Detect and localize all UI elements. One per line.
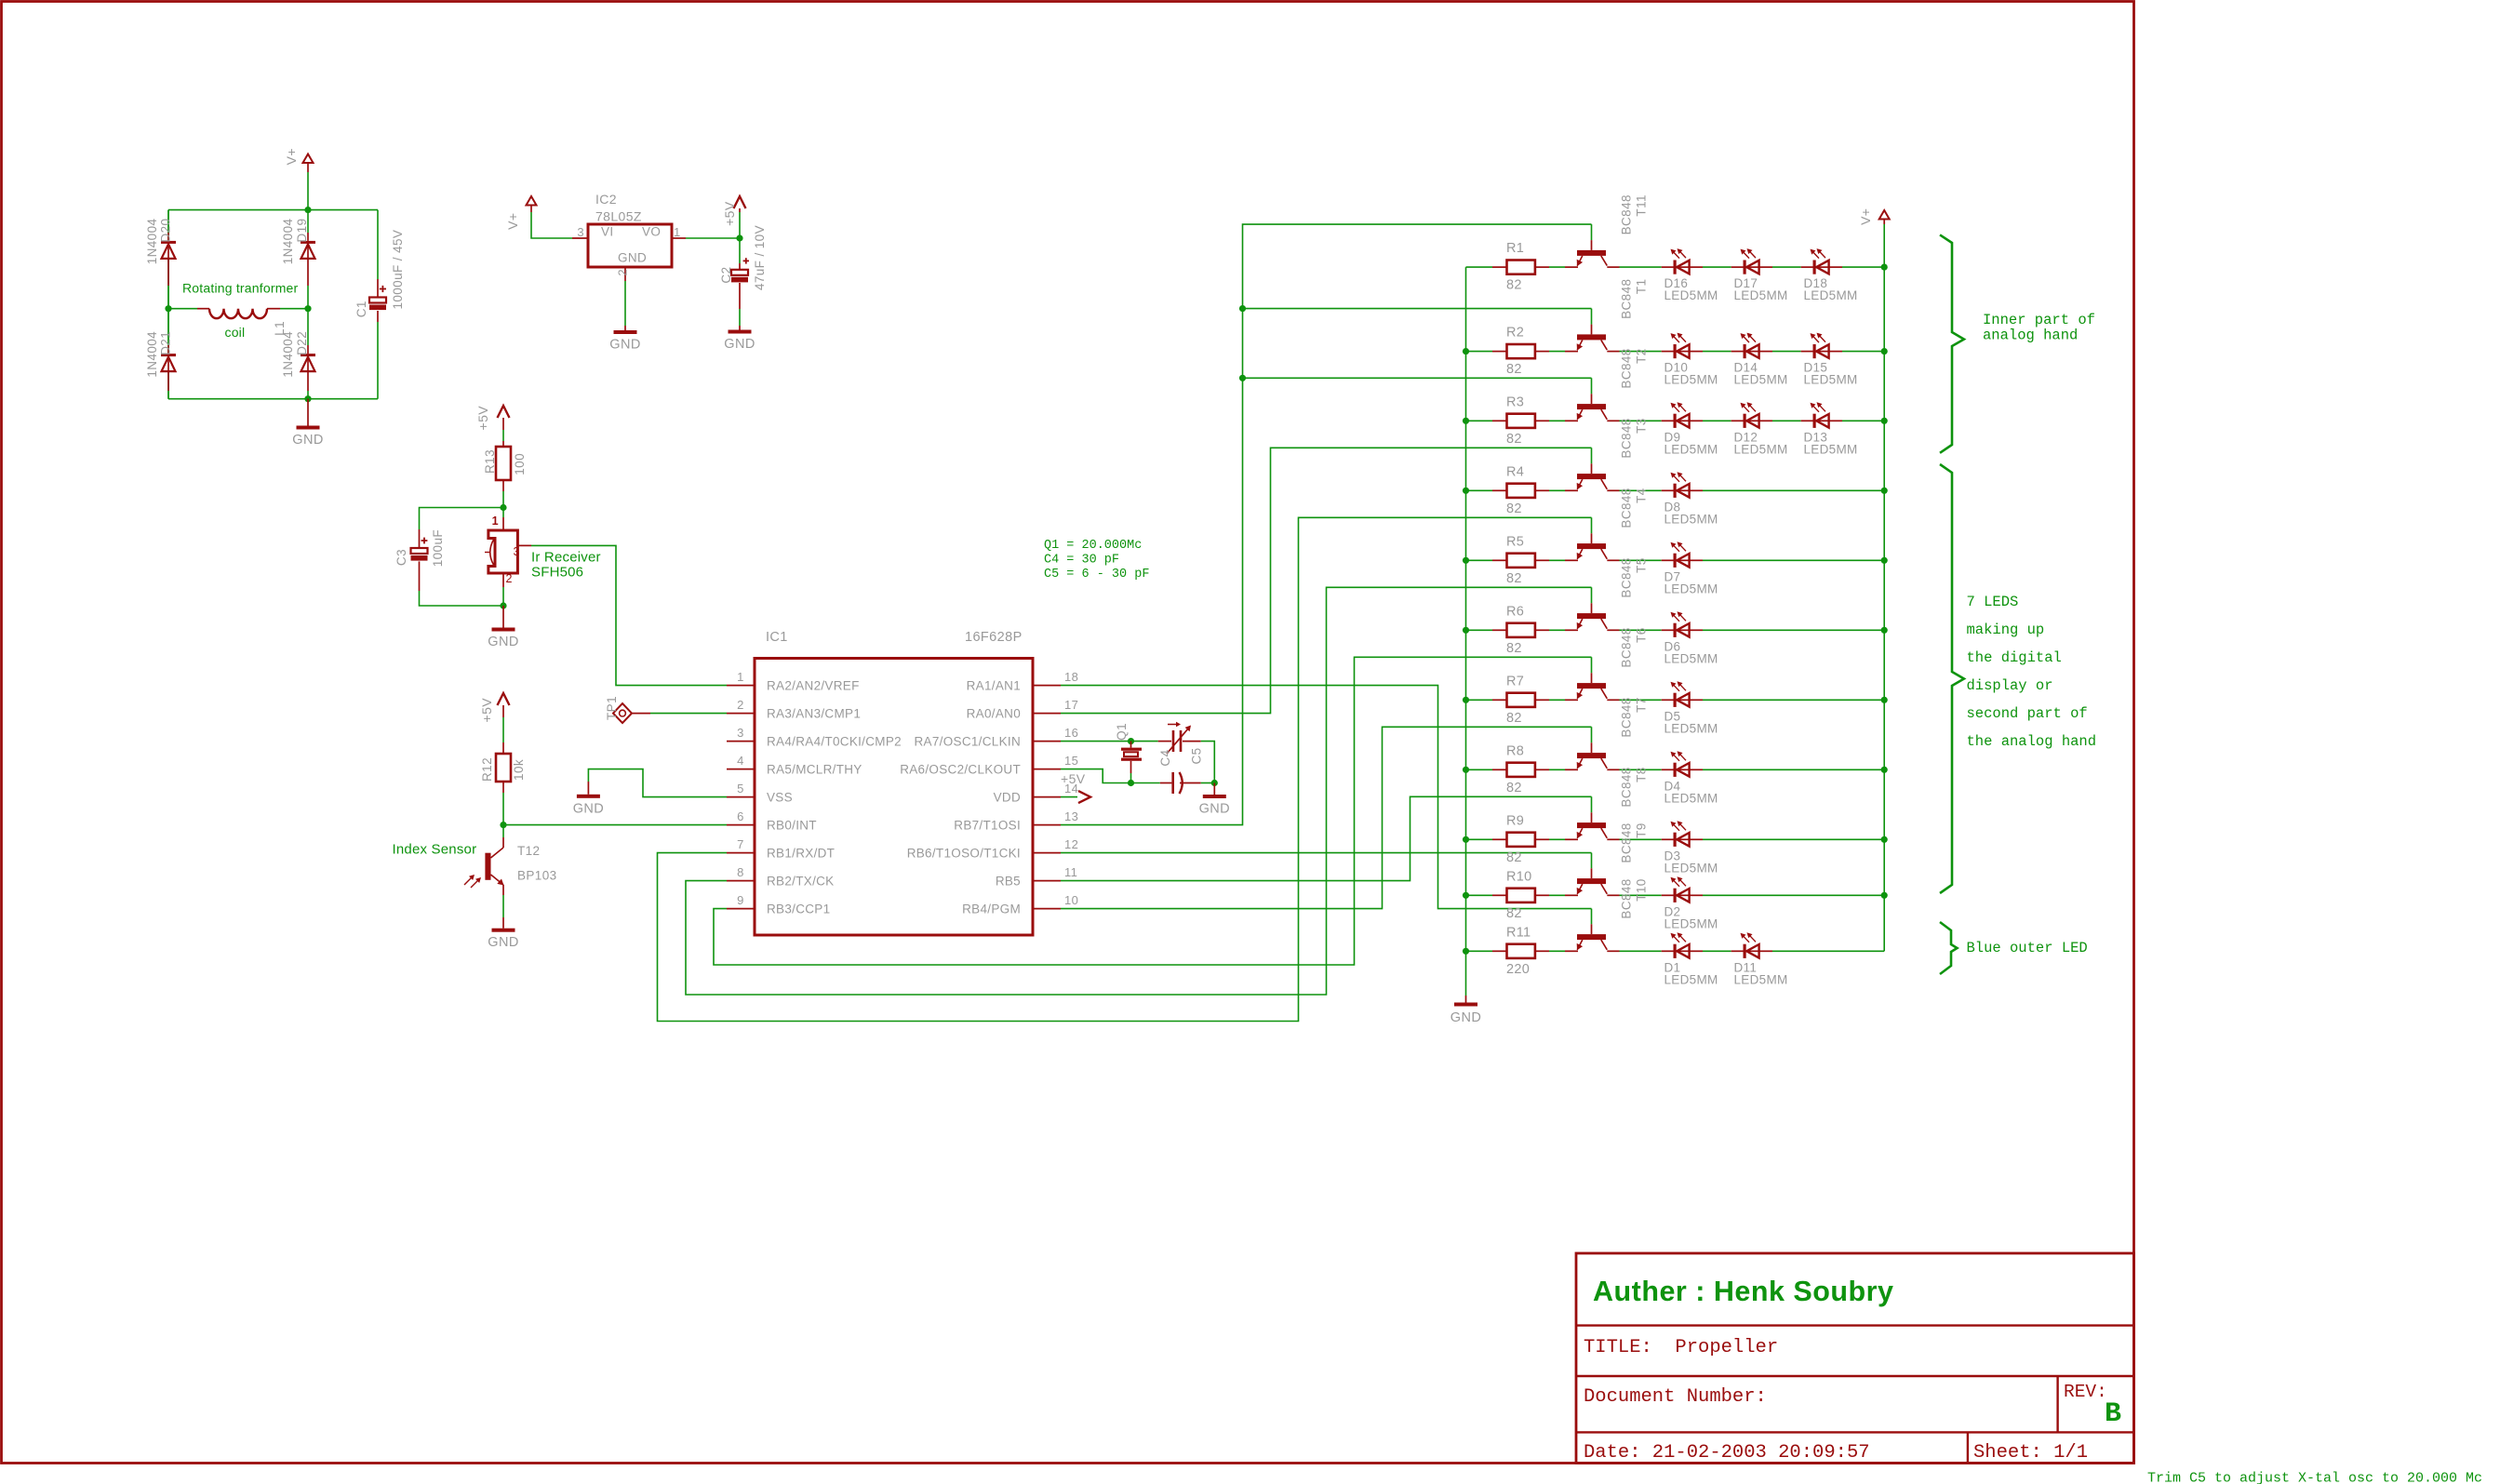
svg-text:display or: display or bbox=[1967, 677, 2053, 694]
junction GND bus row 10 bbox=[1463, 892, 1469, 899]
wire base feed to transistor T11 bbox=[1591, 224, 1593, 240]
svg-text:BC848: BC848 bbox=[1620, 557, 1634, 597]
svg-text:7: 7 bbox=[737, 837, 744, 851]
svg-text:TP1: TP1 bbox=[605, 696, 619, 720]
svg-text:8: 8 bbox=[737, 865, 744, 879]
svg-text:T11: T11 bbox=[1635, 194, 1649, 216]
svg-text:RA5/MCLR/THY: RA5/MCLR/THY bbox=[767, 763, 862, 777]
capacitor C4 (variable) bbox=[1158, 741, 1171, 742]
svg-text:BC848: BC848 bbox=[1620, 279, 1634, 319]
svg-text:TITLE: Propeller: TITLE: Propeller bbox=[1584, 1337, 1778, 1358]
resistor R6 82 bbox=[1492, 629, 1506, 631]
svg-text:1: 1 bbox=[492, 515, 499, 528]
pin 10 RB4/PGM bbox=[1033, 908, 1061, 910]
wire GND bus to resistor R3 bbox=[1466, 420, 1493, 421]
svg-text:R11: R11 bbox=[1506, 925, 1531, 940]
resistor R11 220 bbox=[1492, 950, 1506, 952]
wire net RB4 pin10 to row8 base bbox=[1061, 727, 1592, 908]
wire to LED D2 bbox=[1620, 894, 1662, 896]
wire LED row 11 to V+ bus bbox=[1772, 950, 1884, 952]
wire to LED D7 bbox=[1620, 559, 1662, 561]
svg-text:82: 82 bbox=[1506, 906, 1522, 921]
svg-text:T1: T1 bbox=[1635, 279, 1649, 295]
wire to LED D3 bbox=[1620, 838, 1662, 840]
LED D18 LED5MM bbox=[1801, 266, 1813, 268]
wire index sensor to IC1 pin 6 bbox=[503, 824, 727, 826]
svg-text:LED5MM: LED5MM bbox=[1804, 288, 1858, 302]
junction V+ bus row 10 bbox=[1881, 892, 1888, 899]
junction V+ bus row 8 bbox=[1881, 767, 1888, 773]
power +5V (VDD pin14) bbox=[1061, 796, 1077, 798]
svg-text:LED5MM: LED5MM bbox=[1734, 373, 1788, 387]
svg-text:IC1: IC1 bbox=[766, 630, 788, 645]
ground (oscillator) bbox=[1213, 783, 1215, 795]
wire TP1 to IC1 pin 2 bbox=[650, 713, 727, 715]
svg-text:RB0/INT: RB0/INT bbox=[767, 819, 817, 833]
LED D15 LED5MM bbox=[1801, 351, 1813, 353]
wire IR pin2 to ground node bbox=[502, 587, 504, 606]
junction GND bus row 3 bbox=[1463, 418, 1469, 424]
wire base feed to transistor T5 bbox=[1591, 587, 1593, 603]
wire IR output to IC1 pin 1 bbox=[531, 545, 727, 685]
capacitor C2 47uF/10V bbox=[739, 238, 741, 263]
svg-text:B: B bbox=[2105, 1398, 2121, 1430]
svg-text:C5: C5 bbox=[1190, 747, 1204, 764]
LED D8 LED5MM bbox=[1662, 489, 1674, 491]
svg-text:T3: T3 bbox=[1635, 418, 1649, 434]
svg-text:BC848: BC848 bbox=[1620, 627, 1634, 667]
inductor L1 rotating transformer coil bbox=[168, 308, 197, 310]
capacitor C3 100uF bbox=[419, 529, 421, 548]
brace 7 leds bbox=[1940, 464, 1964, 893]
svg-text:1000uF / 45V: 1000uF / 45V bbox=[391, 230, 405, 310]
LED D17 LED5MM bbox=[1731, 266, 1744, 268]
pin 1 RA2/AN2/VREF bbox=[727, 685, 755, 687]
svg-text:Sheet: 1/1: Sheet: 1/1 bbox=[1973, 1442, 2088, 1464]
svg-text:82: 82 bbox=[1506, 278, 1522, 293]
junction index sensor bbox=[500, 822, 506, 828]
svg-text:82: 82 bbox=[1506, 501, 1522, 516]
wire net RA0 pin17 to row4 base bbox=[1061, 448, 1592, 713]
LED D1 LED5MM bbox=[1662, 950, 1674, 952]
power +5V (R12) bbox=[498, 693, 510, 705]
svg-text:T7: T7 bbox=[1635, 697, 1649, 713]
wire base feed to transistor T2 bbox=[1591, 378, 1593, 394]
op-amp U1 IC2 78L05Z body bbox=[588, 224, 672, 267]
wire LED row 4 to V+ bus bbox=[1703, 489, 1884, 491]
LED D3 LED5MM bbox=[1662, 838, 1674, 840]
svg-text:9: 9 bbox=[737, 893, 744, 907]
diode D22 1N4004 bbox=[307, 309, 309, 345]
junction Q1 bottom bbox=[1128, 780, 1134, 786]
wire GND bus to resistor R2 bbox=[1466, 351, 1493, 353]
wire collector row 3 bbox=[1607, 420, 1619, 421]
junction Q1 top bbox=[1128, 738, 1134, 744]
junction riser row2 bbox=[1239, 305, 1246, 312]
wire IC2 VO to +5V node bbox=[686, 237, 740, 239]
wire LED row 6 to V+ bus bbox=[1703, 629, 1884, 631]
svg-text:Ir Receiver: Ir Receiver bbox=[531, 550, 601, 566]
junction V+ bus row 2 bbox=[1881, 348, 1888, 354]
svg-text:LED5MM: LED5MM bbox=[1664, 288, 1718, 302]
wire to LED D10 bbox=[1620, 351, 1662, 353]
wire V+ bus vertical bbox=[1883, 224, 1885, 951]
wire branch to row3 base bbox=[1243, 377, 1592, 379]
IR receiver SFH506 bbox=[502, 508, 504, 518]
svg-text:11: 11 bbox=[1064, 865, 1077, 879]
junction GND bus row 9 bbox=[1463, 836, 1469, 843]
svg-text:78L05Z: 78L05Z bbox=[595, 209, 642, 224]
wire base feed to transistor T1 bbox=[1591, 309, 1593, 325]
wire LED row 5 to V+ bus bbox=[1703, 559, 1884, 561]
LED D4 LED5MM bbox=[1662, 769, 1674, 770]
svg-text:D20: D20 bbox=[159, 219, 173, 243]
svg-text:R2: R2 bbox=[1506, 326, 1524, 341]
junction C3/IR ground bbox=[500, 602, 506, 608]
ground (IR receiver) bbox=[502, 606, 504, 628]
svg-text:RB7/T1OSI: RB7/T1OSI bbox=[954, 819, 1021, 833]
svg-text:BP103: BP103 bbox=[517, 869, 557, 883]
svg-text:Q1 = 20.000Mc: Q1 = 20.000Mc bbox=[1044, 539, 1142, 553]
power V+ (IC2) bbox=[527, 196, 537, 206]
wire net RB6 pin12 to row10 base bbox=[1061, 852, 1592, 854]
wire net RA1 pin18 to row11 base bbox=[1061, 686, 1592, 909]
svg-text:Date: 21-02-2003 20:09:57: Date: 21-02-2003 20:09:57 bbox=[1584, 1442, 1870, 1464]
LED D12 LED5MM bbox=[1731, 420, 1744, 421]
svg-text:LED5MM: LED5MM bbox=[1664, 373, 1718, 387]
wire to LED D4 bbox=[1620, 769, 1662, 770]
pin 12 RB6/T1OSO/T1CKI bbox=[1033, 852, 1061, 854]
svg-text:+5V: +5V bbox=[1061, 771, 1086, 786]
wire LED row 8 to V+ bus bbox=[1703, 769, 1884, 770]
svg-text:V+: V+ bbox=[284, 148, 299, 165]
svg-text:82: 82 bbox=[1506, 781, 1522, 795]
junction V+ bus row 7 bbox=[1881, 697, 1888, 703]
svg-text:4: 4 bbox=[737, 754, 744, 768]
ground (C2) bbox=[729, 330, 752, 334]
pin 11 RB5 bbox=[1033, 880, 1061, 882]
wire to LED D8 bbox=[1620, 489, 1662, 491]
svg-text:12: 12 bbox=[1064, 837, 1078, 851]
svg-text:2: 2 bbox=[506, 572, 513, 585]
junction V+ bus row 4 bbox=[1881, 488, 1888, 494]
svg-text:82: 82 bbox=[1506, 432, 1522, 447]
wire net RB7 pin13 to T-row1/2/3 bases bbox=[1061, 224, 1592, 825]
wire GND bus to resistor R1 bbox=[1466, 266, 1493, 268]
LED D9 LED5MM bbox=[1662, 420, 1674, 421]
junction bridge bottom bbox=[304, 395, 311, 402]
wire collector row 9 bbox=[1607, 838, 1619, 840]
wire to LED D16 bbox=[1620, 266, 1662, 268]
svg-text:220: 220 bbox=[1506, 962, 1530, 977]
svg-text:GND: GND bbox=[488, 935, 518, 950]
svg-text:T9: T9 bbox=[1635, 822, 1649, 838]
pin stub IC2 pin 2 bbox=[624, 267, 626, 281]
pin 5 VSS bbox=[727, 796, 755, 798]
wire GND bus to resistor R4 bbox=[1466, 489, 1493, 491]
svg-text:+5V: +5V bbox=[475, 406, 490, 431]
resistor R12 10k bbox=[502, 717, 504, 742]
svg-text:82: 82 bbox=[1506, 711, 1522, 726]
pin 8 RB2/TX/CK bbox=[727, 880, 755, 882]
svg-text:RA7/OSC1/CLKIN: RA7/OSC1/CLKIN bbox=[915, 735, 1022, 749]
diode D19 1N4004 bbox=[307, 210, 309, 233]
transistor T11 BC848 bbox=[1591, 240, 1593, 250]
svg-text:BC848: BC848 bbox=[1620, 348, 1634, 388]
wire C5 to GND node bbox=[1201, 782, 1215, 784]
wire collector row 11 bbox=[1607, 950, 1619, 952]
svg-text:LED5MM: LED5MM bbox=[1664, 721, 1718, 735]
wire LED row 7 to V+ bus bbox=[1703, 699, 1884, 701]
svg-text:LED5MM: LED5MM bbox=[1664, 861, 1718, 875]
svg-text:15: 15 bbox=[1064, 754, 1078, 768]
svg-text:IC2: IC2 bbox=[595, 192, 617, 207]
wire GND bus to resistor R11 bbox=[1466, 950, 1493, 952]
junction V+ bus row 9 bbox=[1881, 836, 1888, 843]
svg-text:10: 10 bbox=[1064, 893, 1078, 907]
svg-text:the digital: the digital bbox=[1967, 649, 2062, 666]
pin stub IR pin 3 bbox=[517, 544, 531, 546]
junction GND bus row 2 bbox=[1463, 348, 1469, 354]
wire +5V node to C3 bbox=[420, 508, 504, 530]
svg-text:the analog hand: the analog hand bbox=[1967, 733, 2097, 750]
svg-text:GND: GND bbox=[609, 338, 640, 353]
pin stub IC2 pin 1 bbox=[672, 237, 686, 239]
svg-text:47uF / 10V: 47uF / 10V bbox=[753, 225, 767, 290]
svg-text:5: 5 bbox=[737, 782, 744, 795]
svg-text:82: 82 bbox=[1506, 850, 1522, 865]
pin 9 RB3/CCP1 bbox=[727, 908, 755, 910]
wire IC1 VSS to ground bbox=[588, 769, 727, 797]
svg-text:second part of: second part of bbox=[1967, 705, 2088, 722]
wire net RB3 pin9 to row7 base bbox=[714, 657, 1592, 965]
junction riser row3 bbox=[1239, 375, 1246, 381]
svg-text:1: 1 bbox=[674, 225, 681, 239]
pin 14 VDD bbox=[1033, 796, 1061, 798]
svg-text:BC848: BC848 bbox=[1620, 418, 1634, 458]
pin 6 RB0/INT bbox=[727, 824, 755, 826]
svg-text:R1: R1 bbox=[1506, 241, 1524, 256]
svg-text:6: 6 bbox=[737, 809, 744, 823]
svg-text:BC848: BC848 bbox=[1620, 697, 1634, 737]
svg-text:T2: T2 bbox=[1635, 348, 1649, 364]
svg-text:LED5MM: LED5MM bbox=[1664, 916, 1718, 930]
ground (IC2) bbox=[614, 330, 637, 334]
LED D11 LED5MM bbox=[1731, 950, 1744, 952]
svg-text:82: 82 bbox=[1506, 571, 1522, 586]
ground (bridge) bbox=[307, 399, 309, 426]
resistor R7 82 bbox=[1492, 699, 1506, 701]
wire base feed to transistor T4 bbox=[1591, 517, 1593, 533]
brace inner part bbox=[1940, 234, 1964, 452]
svg-text:RB3/CCP1: RB3/CCP1 bbox=[767, 902, 830, 916]
svg-text:R4: R4 bbox=[1506, 464, 1524, 479]
junction bridge mid-left bbox=[165, 305, 171, 312]
svg-text:LED5MM: LED5MM bbox=[1664, 651, 1718, 665]
power V+ (bridge) bbox=[303, 154, 314, 164]
ground (GND bus) bbox=[1465, 996, 1467, 1003]
svg-text:C2: C2 bbox=[719, 267, 733, 284]
svg-text:RB1/RX/DT: RB1/RX/DT bbox=[767, 847, 835, 861]
wire LED row 1 to V+ bus bbox=[1842, 266, 1884, 268]
svg-text:RA6/OSC2/CLKOUT: RA6/OSC2/CLKOUT bbox=[900, 763, 1021, 777]
pin 7 RB1/RX/DT bbox=[727, 852, 755, 854]
svg-text:GND: GND bbox=[618, 251, 647, 265]
resistor R5 82 bbox=[1492, 559, 1506, 561]
wire LED row 9 to V+ bus bbox=[1703, 838, 1884, 840]
wire to LED D12 bbox=[1703, 420, 1731, 421]
transistor T10 BC848 bbox=[1591, 924, 1593, 934]
svg-text:+5V: +5V bbox=[722, 201, 737, 226]
svg-text:VI: VI bbox=[601, 225, 614, 239]
wire GND bus to resistor R9 bbox=[1466, 838, 1493, 840]
wire collector row 8 bbox=[1607, 769, 1619, 770]
power +5V (R13) bbox=[498, 406, 510, 418]
svg-text:1N4004: 1N4004 bbox=[145, 219, 159, 265]
junction bridge mid-right bbox=[304, 305, 311, 312]
junction V+ bus row 6 bbox=[1881, 627, 1888, 634]
svg-text:RA1/AN1: RA1/AN1 bbox=[967, 679, 1021, 693]
svg-text:BC848: BC848 bbox=[1620, 767, 1634, 807]
pin stub IR pin 2 bbox=[502, 573, 504, 587]
svg-text:D22: D22 bbox=[295, 331, 309, 355]
IC IC1 16F628P body bbox=[755, 659, 1033, 936]
wire IC2 GND pin to ground bbox=[624, 281, 626, 326]
wire GND bus to resistor R7 bbox=[1466, 699, 1493, 701]
svg-text:D19: D19 bbox=[295, 219, 309, 243]
resistor R1 82 bbox=[1492, 266, 1506, 268]
wire bridge bottom rail bbox=[168, 398, 378, 400]
svg-text:LED5MM: LED5MM bbox=[1734, 288, 1788, 302]
svg-text:1: 1 bbox=[737, 670, 744, 684]
pin stub IC2 pin 3 bbox=[572, 237, 588, 239]
pin 15 RA6/OSC2/CLKOUT bbox=[1033, 769, 1061, 770]
svg-text:LED5MM: LED5MM bbox=[1734, 972, 1788, 986]
svg-text:VDD: VDD bbox=[994, 791, 1021, 805]
resistor R4 82 bbox=[1492, 489, 1506, 491]
transistor T8 BC848 bbox=[1591, 812, 1593, 822]
junction GND bus row 6 bbox=[1463, 627, 1469, 634]
svg-text:C1: C1 bbox=[354, 301, 368, 317]
junction V+ bus row 3 bbox=[1881, 418, 1888, 424]
svg-text:7 LEDS: 7 LEDS bbox=[1967, 594, 2019, 610]
svg-text:C4 = 30 pF: C4 = 30 pF bbox=[1044, 554, 1119, 568]
svg-text:LED5MM: LED5MM bbox=[1664, 972, 1718, 986]
diode D21 1N4004 bbox=[167, 309, 169, 345]
svg-text:Auther : Henk Soubry: Auther : Henk Soubry bbox=[1593, 1276, 1894, 1307]
svg-text:100: 100 bbox=[513, 453, 527, 475]
svg-text:GND: GND bbox=[1199, 802, 1230, 817]
svg-text:R5: R5 bbox=[1506, 534, 1524, 549]
junction IC2 output bbox=[736, 234, 742, 241]
wire C4 to GND corner bbox=[1201, 742, 1215, 783]
svg-text:R12: R12 bbox=[480, 757, 494, 782]
light arrows into T12 bbox=[464, 876, 474, 885]
LED D14 LED5MM bbox=[1731, 351, 1744, 353]
svg-text:RA4/RA4/T0CKI/CMP2: RA4/RA4/T0CKI/CMP2 bbox=[767, 735, 902, 749]
junction GND bus row 8 bbox=[1463, 767, 1469, 773]
svg-text:Rotating tranformer: Rotating tranformer bbox=[182, 281, 299, 296]
svg-text:Trim C5 to adjust X-tal osc to: Trim C5 to adjust X-tal osc to 20.000 Mc bbox=[2147, 1471, 2482, 1484]
wire to LED D17 bbox=[1703, 266, 1731, 268]
svg-text:BC848: BC848 bbox=[1620, 488, 1634, 528]
svg-text:Document Number:: Document Number: bbox=[1584, 1386, 1767, 1408]
wire GND bus to resistor R8 bbox=[1466, 769, 1493, 770]
LED D13 LED5MM bbox=[1801, 420, 1813, 421]
svg-text:1N4004: 1N4004 bbox=[145, 331, 159, 378]
svg-text:16: 16 bbox=[1064, 726, 1078, 740]
svg-text:R3: R3 bbox=[1506, 394, 1524, 409]
svg-text:SFH506: SFH506 bbox=[531, 565, 583, 581]
wire collector row 2 bbox=[1607, 351, 1619, 353]
svg-text:RA3/AN3/CMP1: RA3/AN3/CMP1 bbox=[767, 707, 861, 721]
svg-text:GND: GND bbox=[1451, 1010, 1481, 1025]
svg-text:LED5MM: LED5MM bbox=[1664, 791, 1718, 805]
svg-text:GND: GND bbox=[292, 433, 323, 448]
svg-text:Blue outer LED: Blue outer LED bbox=[1967, 940, 2088, 956]
LED D2 LED5MM bbox=[1662, 894, 1674, 896]
svg-text:RB4/PGM: RB4/PGM bbox=[962, 902, 1021, 916]
transistor T3 BC848 bbox=[1591, 463, 1593, 474]
test point TP1 bbox=[613, 703, 632, 723]
svg-text:RB6/T1OSO/T1CKI: RB6/T1OSO/T1CKI bbox=[907, 847, 1021, 861]
svg-text:3: 3 bbox=[514, 545, 520, 558]
wire to LED D9 bbox=[1620, 420, 1662, 421]
wire net RB2 pin8 to row6 base bbox=[686, 587, 1592, 995]
svg-text:LED5MM: LED5MM bbox=[1664, 512, 1718, 526]
svg-text:T4: T4 bbox=[1635, 488, 1649, 503]
title block box bbox=[1576, 1253, 2134, 1464]
svg-text:BC848: BC848 bbox=[1620, 194, 1634, 234]
LED D10 LED5MM bbox=[1662, 351, 1674, 353]
svg-text:82: 82 bbox=[1506, 362, 1522, 377]
capacitor C5 (trimmer) bbox=[1131, 782, 1160, 784]
wire collector row 1 bbox=[1607, 266, 1619, 268]
pin 2 RA3/AN3/CMP1 bbox=[727, 713, 755, 715]
junction GND bus row 7 bbox=[1463, 697, 1469, 703]
svg-text:10k: 10k bbox=[512, 759, 526, 781]
wire to LED D1 bbox=[1620, 950, 1662, 952]
svg-text:16F628P: 16F628P bbox=[965, 630, 1023, 645]
resistor R9 82 bbox=[1492, 838, 1506, 840]
svg-text:VSS: VSS bbox=[767, 791, 793, 805]
svg-text:RA0/AN0: RA0/AN0 bbox=[967, 707, 1021, 721]
pin 17 RA0/AN0 bbox=[1033, 713, 1061, 715]
LED D6 LED5MM bbox=[1662, 629, 1674, 631]
svg-text:R7: R7 bbox=[1506, 674, 1524, 689]
ground (VSS) bbox=[577, 795, 600, 798]
wire base feed to transistor T10 bbox=[1591, 909, 1593, 925]
svg-text:100uF: 100uF bbox=[431, 529, 445, 567]
svg-text:13: 13 bbox=[1064, 809, 1078, 823]
resistor R10 82 bbox=[1492, 894, 1506, 896]
svg-text:D21: D21 bbox=[159, 331, 173, 355]
wire to LED D11 bbox=[1703, 950, 1731, 952]
svg-text:REV:: REV: bbox=[2064, 1382, 2107, 1402]
svg-text:R6: R6 bbox=[1506, 604, 1524, 619]
junction R13 bottom bbox=[500, 504, 506, 511]
pin 18 RA1/AN1 bbox=[1033, 685, 1061, 687]
svg-text:LED5MM: LED5MM bbox=[1734, 442, 1788, 456]
svg-text:2: 2 bbox=[737, 698, 744, 712]
junction V+ bus row 1 bbox=[1881, 264, 1888, 271]
brace blue outer LED bbox=[1940, 922, 1958, 974]
wire collector row 5 bbox=[1607, 559, 1619, 561]
svg-text:GND: GND bbox=[488, 635, 518, 649]
transistor T5 BC848 bbox=[1591, 603, 1593, 613]
wire LED row 3 to V+ bus bbox=[1842, 420, 1884, 421]
svg-text:2: 2 bbox=[616, 269, 630, 276]
